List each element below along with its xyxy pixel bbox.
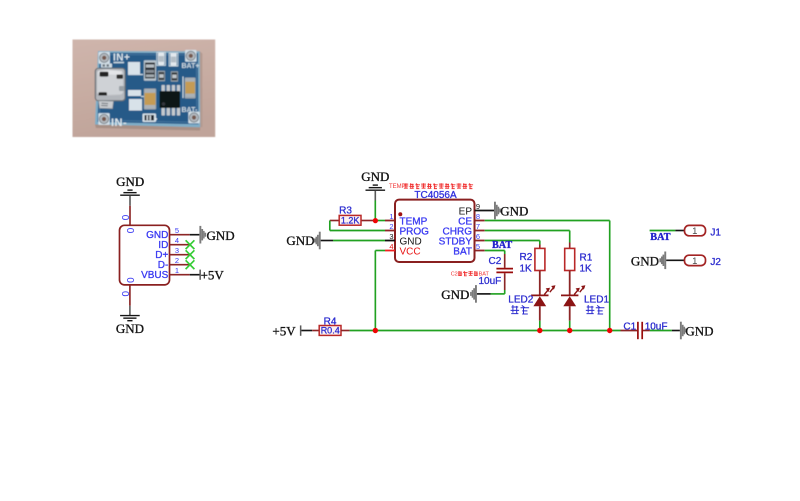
- svg-text:GND: GND: [441, 287, 469, 302]
- svg-text:3: 3: [175, 246, 179, 255]
- svg-text:R0.4: R0.4: [321, 326, 340, 336]
- svg-text:5: 5: [175, 226, 179, 235]
- svg-text:10uF: 10uF: [479, 276, 502, 287]
- svg-text:R1: R1: [580, 252, 593, 263]
- svg-text:BAT-: BAT-: [182, 107, 198, 114]
- svg-text:R2: R2: [520, 252, 533, 263]
- svg-text:1: 1: [692, 226, 697, 237]
- svg-text:IN+: IN+: [113, 53, 130, 64]
- svg-text:0: 0: [119, 291, 130, 297]
- svg-text:GND: GND: [207, 228, 235, 243]
- svg-text:GND: GND: [500, 204, 528, 219]
- svg-text:2: 2: [389, 222, 393, 231]
- svg-text:+5V: +5V: [201, 267, 225, 282]
- svg-text:GND: GND: [286, 233, 314, 248]
- svg-text:GND: GND: [685, 323, 713, 338]
- svg-text:C2: C2: [451, 272, 458, 278]
- svg-text:4: 4: [389, 242, 393, 251]
- svg-text:LED1: LED1: [584, 295, 609, 306]
- svg-text:VBUS: VBUS: [141, 270, 169, 281]
- svg-text:3: 3: [389, 232, 393, 241]
- svg-text:BAT: BAT: [650, 232, 670, 243]
- svg-text:0: 0: [124, 277, 135, 283]
- svg-text:BAT: BAT: [479, 272, 490, 278]
- svg-text:10uF: 10uF: [645, 321, 668, 332]
- svg-text:GND: GND: [361, 169, 389, 184]
- svg-text:8: 8: [476, 212, 480, 221]
- svg-text:7: 7: [476, 222, 480, 231]
- svg-text:GND: GND: [116, 321, 144, 336]
- svg-text:9: 9: [476, 202, 480, 211]
- svg-text:LED2: LED2: [508, 295, 533, 306]
- svg-text:1K: 1K: [580, 264, 593, 275]
- svg-text:BAT: BAT: [453, 246, 472, 257]
- svg-text:BAT: BAT: [492, 240, 512, 251]
- svg-text:J1: J1: [710, 227, 721, 238]
- svg-text:0: 0: [119, 215, 130, 221]
- svg-text:IN-: IN-: [111, 117, 127, 129]
- svg-text:1.2K: 1.2K: [341, 216, 360, 226]
- svg-text:1: 1: [389, 212, 393, 221]
- svg-text:4: 4: [175, 236, 179, 245]
- svg-text:TEMP: TEMP: [389, 184, 406, 190]
- svg-text:2: 2: [175, 256, 179, 265]
- svg-text:GND: GND: [116, 174, 144, 189]
- svg-text:5: 5: [476, 242, 480, 251]
- svg-text:BAT+: BAT+: [182, 63, 200, 70]
- svg-text:C2: C2: [489, 256, 502, 267]
- svg-text:VCC: VCC: [400, 246, 421, 257]
- svg-text:J2: J2: [710, 257, 721, 268]
- svg-text:C1: C1: [623, 321, 636, 332]
- svg-text:GND: GND: [631, 253, 659, 268]
- svg-text:1K: 1K: [520, 263, 533, 274]
- svg-text:+5V: +5V: [272, 323, 296, 338]
- svg-text:6: 6: [476, 232, 480, 241]
- svg-text:1: 1: [175, 266, 179, 275]
- svg-text:0: 0: [124, 228, 135, 234]
- svg-text:1: 1: [692, 256, 697, 267]
